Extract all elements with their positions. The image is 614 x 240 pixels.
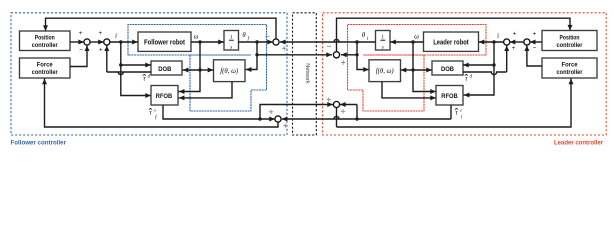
- svg-text:DOB: DOB: [441, 66, 454, 73]
- sign minus below J1: [79, 47, 83, 54]
- force controller (leader): [542, 58, 597, 78]
- wire omega tap down to DOB, f and RFOB (leader): [401, 42, 436, 94]
- wire J2 to follower robot (current reference): [110, 40, 138, 45]
- RFOB block (follower): [151, 86, 178, 106]
- svg-text:e: e: [460, 107, 462, 112]
- label omega (follower): [194, 33, 199, 40]
- label tau_d (leader): [465, 74, 473, 82]
- svg-text:+: +: [98, 30, 102, 37]
- sign plus right of J6: [341, 109, 345, 113]
- network dashed boundary: [293, 13, 317, 135]
- wire DOB disturbance estimate to J2 (follower): [104, 45, 151, 74]
- sign plus right of J4: [341, 60, 345, 64]
- svg-text:+: +: [512, 45, 516, 52]
- leader robot block: [424, 32, 479, 51]
- svg-text:e: e: [154, 107, 156, 112]
- label tau_d (follower): [143, 74, 151, 82]
- svg-text:s: s: [382, 45, 384, 51]
- wire current reference tap down to DOB and RFOB (follower): [119, 42, 151, 98]
- leader controller dashed boundary: [323, 13, 607, 135]
- DOB block (follower): [151, 61, 182, 75]
- wire leader robot output omega to integrator: [390, 40, 424, 45]
- follower controller dashed boundary: [11, 13, 287, 135]
- label Follower controller: [11, 140, 67, 147]
- svg-text:controller: controller: [557, 42, 583, 49]
- label theta_l: [362, 32, 369, 42]
- label omega (leader): [414, 33, 419, 40]
- wire J1 to J2: [90, 40, 104, 45]
- svg-text:ω: ω: [194, 33, 199, 40]
- friction model f(theta,omega) (leader): [369, 60, 401, 82]
- sign plus right of J3: [282, 46, 286, 50]
- friction model f(theta,omega) (follower): [214, 60, 246, 82]
- sign plus above J2: [98, 30, 102, 37]
- svg-text:Position: Position: [560, 34, 580, 41]
- sign plus below JA: [512, 45, 516, 52]
- summing junction J4 (leader position error): [333, 52, 339, 58]
- svg-text:+: +: [79, 30, 83, 37]
- wire omega tap down to DOB, f and RFOB (follower): [179, 42, 214, 94]
- svg-text:ω: ω: [414, 33, 419, 40]
- sign plus left of J6: [327, 97, 331, 101]
- wire RFOB output tau_f^e to J5 (follower): [163, 105, 275, 122]
- wire JA to leader robot (current reference): [479, 40, 504, 45]
- svg-text:controller: controller: [32, 42, 58, 49]
- svg-text:controller: controller: [557, 69, 583, 76]
- sign plus above JA: [513, 30, 517, 37]
- svg-text:Follower robot: Follower robot: [144, 40, 186, 47]
- svg-text:−: −: [79, 47, 83, 54]
- sign minus left of J4: [327, 45, 331, 47]
- svg-text:f(θ, ω): f(θ, ω): [220, 68, 239, 75]
- label Network: [304, 63, 310, 84]
- sign plus below J2: [99, 47, 103, 54]
- sign minus left of J3: [265, 35, 269, 37]
- sign plus above J1: [79, 30, 83, 37]
- svg-text:Position: Position: [35, 35, 55, 42]
- summing junction JB (leader position+force): [524, 39, 530, 45]
- wire tau_f^e across network to J6: [260, 102, 333, 119]
- sign plus left of J5: [269, 110, 273, 114]
- svg-text:Leader controller: Leader controller: [554, 140, 603, 147]
- RFOB block (leader): [436, 86, 463, 106]
- wire JB to JA: [510, 40, 524, 45]
- wire current reference tap down to DOB and RFOB (leader): [463, 42, 496, 98]
- svg-text:s: s: [230, 45, 232, 51]
- wire follower robot output omega to integrator: [191, 40, 224, 45]
- wire friction model output to RFOB (leader): [382, 82, 436, 101]
- wire follower force controller output to J1: [70, 45, 90, 66]
- wire theta_l tap down to J4 and friction model (leader): [341, 42, 369, 72]
- integrator 1/s (leader): [376, 31, 391, 51]
- wire leader force controller output to JB: [524, 45, 542, 66]
- summing junction J3 (follower position error): [273, 39, 279, 45]
- svg-text:Force: Force: [37, 62, 53, 69]
- label i_ref (leader): [497, 33, 500, 40]
- svg-text:+: +: [99, 47, 103, 54]
- svg-text:Force: Force: [562, 62, 578, 69]
- wire J5 output to follower force controller: [42, 79, 278, 128]
- svg-text:Follower controller: Follower controller: [11, 140, 67, 147]
- wire theta_f tap down to J4 and friction model: [246, 42, 332, 72]
- DOB block (leader): [432, 61, 463, 75]
- leader plant dotted boundary: [348, 25, 487, 112]
- svg-text:Network: Network: [304, 63, 310, 84]
- sign minus below JB: [533, 45, 537, 52]
- force controller (follower): [20, 58, 71, 78]
- svg-text:Leader robot: Leader robot: [433, 40, 469, 47]
- position controller (leader): [542, 31, 597, 51]
- svg-text:+: +: [513, 30, 517, 37]
- sign plus above JB: [533, 30, 537, 37]
- summing junction J1 (follower position+force): [84, 39, 90, 45]
- wire J6 output to leader force controller: [337, 79, 574, 128]
- label tau_f^e (follower): [149, 107, 158, 120]
- wire follower position controller output to J1: [70, 40, 84, 45]
- wire J4 output up to leader position controller: [337, 18, 573, 52]
- svg-text:RFOB: RFOB: [441, 93, 458, 100]
- wire integrator output theta_f to J3: [239, 40, 274, 45]
- position controller (follower): [20, 31, 71, 51]
- svg-text:RFOB: RFOB: [156, 93, 173, 100]
- wire tau_l^e from leader across network to J5: [282, 105, 451, 122]
- sign plus right of J5: [283, 123, 287, 127]
- svg-text:f(θ, ω): f(θ, ω): [376, 68, 395, 75]
- wire tau_l^e tap up to J6: [340, 102, 357, 119]
- svg-text:controller: controller: [32, 69, 58, 76]
- label i_ref (follower): [115, 33, 118, 40]
- follower robot block: [138, 32, 191, 51]
- label Leader controller: [554, 140, 603, 147]
- svg-text:−: −: [533, 45, 537, 52]
- summing junction JA (leader DOB compensation): [504, 39, 510, 45]
- label theta_f: [242, 32, 249, 42]
- integrator 1/s (follower): [224, 31, 239, 51]
- summing junction J5 (follower force sum): [275, 116, 281, 122]
- follower plant dotted boundary: [128, 25, 267, 112]
- label tau_l^e (leader): [455, 107, 463, 120]
- wire DOB disturbance estimate to JA (leader): [463, 45, 509, 74]
- wire position feedback to follower position controller: [43, 18, 276, 39]
- svg-text:DOB: DOB: [158, 66, 171, 73]
- wire theta_l from leader across network into J3: [280, 39, 376, 44]
- wire leader position controller output to JB: [530, 40, 542, 45]
- summing junction J6 (leader force sum): [333, 101, 339, 107]
- summing junction J2 (follower DOB compensation): [104, 39, 110, 45]
- wire friction model output to RFOB (follower): [179, 82, 232, 101]
- svg-text:+: +: [533, 30, 537, 37]
